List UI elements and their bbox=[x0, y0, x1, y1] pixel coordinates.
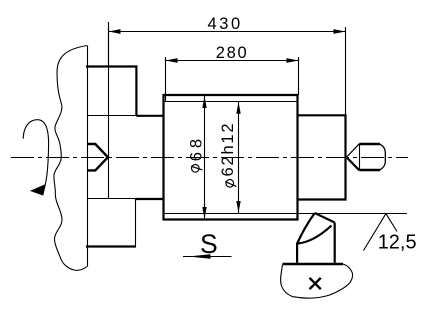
dimension line 430 bbox=[109, 31, 346, 33]
tailstock center cone upper edge bbox=[347, 144, 360, 157]
workpiece neck top edge bbox=[136, 115, 163, 117]
diameter symbol slash for d68 bbox=[191, 166, 203, 170]
dimension 430 left arrowhead bbox=[109, 29, 121, 34]
dimension 280 left arrowhead bbox=[166, 58, 178, 63]
svg-text:12,5: 12,5 bbox=[378, 232, 417, 254]
cutting tool left edge bbox=[297, 213, 315, 263]
dimension d62h12 bottom arrowhead bbox=[236, 201, 240, 213]
tool holder X mark bbox=[310, 278, 321, 289]
cutting tool rake face arc bbox=[297, 226, 331, 244]
drive plate face line bbox=[87, 46, 89, 267]
cylinder blank d68 bottom line bbox=[164, 218, 298, 220]
right shaft section bottom edge bbox=[298, 198, 347, 200]
diameter symbol circle for d68 bbox=[192, 165, 200, 173]
workpiece left face bbox=[108, 27, 110, 199]
diameter symbol circle for d62h12 bbox=[226, 180, 234, 188]
cylinder left face bbox=[162, 94, 164, 221]
rotation arrowhead bbox=[31, 185, 46, 196]
dimension 430 right arrowhead bbox=[334, 29, 346, 34]
wavy break line of drive plate bbox=[54, 46, 87, 271]
workpiece neck bottom edge bbox=[136, 198, 164, 200]
tailstock center body rounded right end bbox=[380, 144, 386, 170]
dimension line 280 bbox=[166, 60, 299, 62]
tool holder top edge bbox=[283, 263, 344, 265]
dimension line d68 bbox=[204, 96, 206, 219]
tool holder outline bbox=[281, 264, 353, 298]
feed direction arrowhead bbox=[188, 254, 211, 259]
svg-text:68: 68 bbox=[188, 135, 206, 161]
surface roughness symbol bbox=[363, 214, 397, 251]
chuck jaw top, top edge bbox=[86, 65, 138, 67]
machined surface d62 top line bbox=[165, 101, 298, 103]
extension line 280 right bbox=[298, 57, 300, 95]
front lathe center (left) bbox=[88, 144, 108, 170]
tailstock center cone base bbox=[359, 144, 361, 171]
right shaft section top edge bbox=[298, 114, 347, 116]
centerline (axis of rotation) bbox=[11, 157, 408, 159]
svg-text:280: 280 bbox=[216, 44, 249, 62]
rotation direction arc bbox=[23, 120, 48, 186]
chuck jaw bottom, right edge bbox=[135, 199, 137, 246]
chuck jaw top, right edge bbox=[135, 66, 137, 116]
svg-text:430: 430 bbox=[208, 15, 243, 33]
dimension d62h12 top arrowhead bbox=[236, 102, 240, 114]
diameter symbol slash for d62h12 bbox=[225, 182, 236, 187]
right shaft section right face bbox=[344, 115, 346, 199]
dimension 280 right arrowhead bbox=[287, 58, 299, 63]
cylinder blank d68 top line bbox=[164, 94, 298, 96]
chuck jaw top, bottom edge bbox=[87, 115, 136, 117]
svg-text:62h12: 62h12 bbox=[219, 122, 237, 177]
chuck jaw bottom, top edge bbox=[87, 198, 136, 200]
machined surface d62 bottom line extended to roughness mark bbox=[165, 213, 408, 215]
dimension d68 bottom arrowhead bbox=[202, 207, 206, 219]
chuck jaw bottom, bottom edge bbox=[86, 245, 136, 247]
cylinder right face bbox=[296, 94, 298, 221]
tailstock center cone lower edge bbox=[347, 157, 360, 170]
extension line 280 left bbox=[165, 57, 167, 101]
cutting tool top edge bbox=[315, 213, 335, 223]
dimension line d62h12 bbox=[238, 102, 240, 213]
tailstock center body bottom edge bbox=[359, 169, 380, 171]
extension line 430 right bbox=[345, 27, 347, 199]
tailstock center body top edge bbox=[359, 143, 380, 145]
cutting tool right edge bbox=[334, 223, 336, 263]
feed direction line bbox=[183, 256, 232, 258]
extension line 430 left bbox=[108, 22, 110, 66]
dimension d68 top arrowhead bbox=[202, 96, 206, 108]
